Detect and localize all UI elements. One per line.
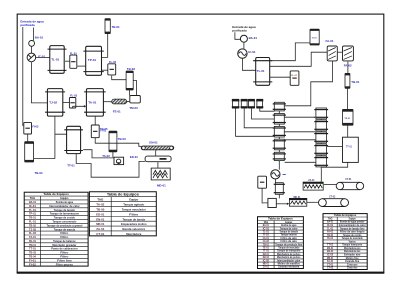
svg-text:Filtro fino: Filtro fino [57,258,72,262]
svg-text:TL-01: TL-01 [51,58,59,62]
svg-text:TA-01: TA-01 [29,235,36,239]
tank TE-51 [343,109,354,125]
svg-text:Cinta uno: Cinta uno [347,263,358,266]
bin B2 [241,99,248,108]
svg-text:CT-02: CT-02 [329,196,336,198]
svg-text:TB-01: TB-01 [351,80,359,84]
svg-text:FE-01: FE-01 [113,110,121,114]
pump BA-51 [240,35,247,42]
bin B1 [232,99,240,108]
wire [278,194,280,198]
svg-text:CT-01: CT-01 [327,264,334,266]
svg-text:TI-01: TI-01 [312,38,318,40]
svg-text:MA-01: MA-01 [263,253,270,256]
svg-text:CT-02: CT-02 [327,268,334,270]
svg-text:IC-01: IC-01 [29,204,37,208]
svg-text:Filtro: Filtro [60,235,69,239]
wire [321,162,347,167]
svg-text:Zaranda fina: Zaranda fina [345,260,360,263]
svg-text:Filtro: Filtro [60,251,69,255]
svg-text:TB-05: TB-05 [96,208,104,212]
wire [133,80,136,95]
dryer ED-01 [145,156,171,162]
table Tabla de Equipos 3 [258,217,304,269]
svg-text:Empacadora molino: Empacadora molino [121,222,147,226]
svg-text:MD-01: MD-01 [294,197,302,199]
wire [285,116,316,118]
conveyor CT-51 [336,182,364,189]
wire [64,60,70,62]
wire [242,58,255,70]
filter FI-02 [24,122,32,134]
wire [31,62,47,103]
wire [63,102,70,104]
mixer TM-03 [130,96,141,103]
svg-text:TB-05: TB-05 [100,127,108,131]
wire [262,188,268,203]
wire [236,108,275,136]
svg-text:TB-02: TB-02 [29,223,36,227]
svg-text:Mezcladora de polvos: Mezcladora de polvos [277,256,301,259]
svg-text:BA-01: BA-01 [35,35,44,39]
mixer M22 [314,120,328,131]
wire [95,138,141,147]
table Tabla de Equipos 4 [323,214,367,270]
svg-text:Tanque de lavado: Tanque de lavado [279,231,298,233]
tank TA-01 [84,89,106,117]
pump unit TA-02 [114,157,124,164]
wire [260,108,275,111]
heat exchanger IC-01 [27,53,36,62]
extruder FE-01 [112,99,127,104]
wire [157,162,159,168]
svg-text:TM-01: TM-01 [29,243,36,247]
wire [274,179,276,183]
svg-text:IC-02: IC-02 [263,260,270,262]
wire [73,106,85,108]
wire [346,88,348,109]
tank TL-51 [253,58,272,86]
svg-text:EN-01: EN-01 [149,140,158,144]
svg-text:MA-02: MA-02 [263,256,270,259]
wire [276,203,287,205]
filter FI-01 [91,125,99,138]
svg-text:Tanque de balance: Tanque de balance [53,239,76,243]
drum D2 [274,183,285,195]
svg-text:MD-01: MD-01 [96,222,104,226]
svg-text:IC-01: IC-01 [263,228,270,230]
svg-text:TJ-02: TJ-02 [49,101,57,105]
column TB-01 [105,19,110,34]
svg-text:MA-02: MA-02 [327,250,334,253]
wire [77,65,86,67]
svg-text:TT-01: TT-01 [263,251,270,253]
svg-text:Tanque de cocido: Tanque de cocido [54,216,76,220]
mill MD-01 [151,168,170,180]
svg-text:TJ-02: TJ-02 [29,227,36,231]
conveyor CT-52 [319,199,349,207]
tank SV-51 [258,176,267,188]
wire [76,154,145,178]
svg-text:TAG: TAG [30,196,35,200]
svg-text:Filtro: Filtro [129,212,138,216]
wire [22,27,24,126]
screen ZA-51 [303,182,323,190]
svg-text:Intercambiador de calor: Intercambiador de calor [49,204,80,208]
wire [129,90,131,95]
svg-text:BA-01: BA-01 [263,224,270,227]
wire [31,46,33,53]
svg-text:Mezcladora de polvos: Mezcladora de polvos [277,253,301,256]
wire [327,145,343,147]
svg-text:Equipo: Equipo [285,222,293,224]
wire [112,75,126,80]
column TB-03 [109,131,117,152]
mixer M21 [314,108,328,119]
svg-text:ZA-01: ZA-01 [263,266,270,269]
svg-text:TL-01: TL-01 [263,231,270,233]
svg-text:Filtro de aire limpio: Filtro de aire limpio [340,231,365,234]
column TI-51 [310,29,319,45]
svg-text:Tanque de mezcla: Tanque de mezcla [54,227,76,231]
svg-text:Tanque de transporte: Tanque de transporte [277,250,301,253]
svg-text:TT-01: TT-01 [346,146,353,148]
wire [27,134,29,142]
wire [285,161,316,163]
svg-text:CT-01: CT-01 [96,232,104,236]
svg-text:TE-01: TE-01 [263,247,270,249]
svg-text:Tabla de Equipos: Tabla de Equipos [107,192,140,197]
svg-text:ED-01: ED-01 [130,155,138,159]
svg-text:Tanque de fermentacion: Tanque de fermentacion [50,212,80,216]
svg-text:Punto de calibracion: Punto de calibracion [51,247,78,251]
svg-text:Tabla de Equipos: Tabla de Equipos [43,192,69,196]
mixer M24 [314,144,328,155]
svg-text:FL-03: FL-03 [70,94,77,98]
bin B3 [248,99,255,108]
svg-text:Tanque de cocido: Tanque de cocido [343,235,362,237]
svg-text:FA-01: FA-01 [326,39,334,43]
svg-text:Mezclador granular: Mezclador granular [52,243,76,247]
svg-text:TB-04: TB-04 [35,171,43,175]
svg-text:FI-01: FI-01 [29,258,37,262]
column TB-51 [345,73,350,88]
wire [285,61,333,106]
svg-text:FA-01: FA-01 [263,237,270,240]
svg-text:FI-02: FI-02 [29,262,37,266]
svg-text:TA-02: TA-02 [96,203,104,207]
svg-text:ZA-01: ZA-01 [96,227,104,231]
svg-text:Tanque de calor: Tanque de calor [280,227,298,230]
svg-text:FL-03: FL-03 [29,231,36,235]
filter FA-02 [343,46,354,61]
packer EN-01 [141,146,174,150]
column TB-02 [126,71,133,90]
wire [347,125,349,137]
svg-text:IC-01: IC-01 [327,225,334,227]
svg-text:FI-02: FI-02 [32,125,39,129]
svg-text:MD-01: MD-01 [327,258,334,260]
tank TP-01 [83,46,103,75]
svg-text:Equipo: Equipo [129,198,138,202]
wire [33,28,35,41]
svg-text:TB-04: TB-04 [29,254,36,258]
svg-text:Equipo: Equipo [60,196,68,200]
wire [347,61,349,74]
svg-text:TB-01: TB-01 [29,216,36,220]
svg-text:Mezcladora dos: Mezcladora dos [344,250,361,253]
svg-text:Filtro: Filtro [60,254,69,258]
wire [270,43,310,61]
svg-text:TE-01: TE-01 [344,118,351,120]
wire [320,119,322,169]
svg-text:Tanque de producto a granel: Tanque de producto a granel [47,223,83,227]
svg-text:Filtro: Filtro [60,231,69,235]
svg-text:ED-01: ED-01 [96,212,104,216]
svg-text:Intercambiador calor: Intercambiador calor [277,259,301,262]
mixer M15 [273,152,286,160]
svg-text:Molino fino: Molino fino [346,258,360,260]
svg-text:TAG: TAG [263,221,268,224]
svg-text:Bomba de agua potable: Bomba de agua potable [340,221,365,224]
svg-text:Tanque de mezclado: Tanque de mezclado [278,247,300,249]
svg-text:TB-01: TB-01 [327,235,334,237]
wire [36,56,50,58]
wire [278,111,280,152]
svg-text:TP-01: TP-01 [88,58,97,62]
pump BA-01 [29,41,35,47]
svg-text:TAG: TAG [328,217,333,220]
svg-text:Tanque mezclador: Tanque mezclador [122,208,147,212]
mixer M12 [273,114,286,125]
tank TT-51 [343,137,359,162]
svg-text:TB-01: TB-01 [112,25,120,29]
svg-text:TM-03: TM-03 [129,106,138,110]
wire [244,108,274,128]
mixer M11 [273,102,286,111]
svg-text:FL-01: FL-01 [29,219,36,223]
svg-text:Equipo: Equipo [349,218,357,220]
svg-text:IC-01: IC-01 [38,55,45,59]
svg-text:Molino de martillos: Molino de martillos [278,262,301,265]
box SE-51 [268,198,276,207]
wire [127,101,130,103]
wire [102,34,108,58]
svg-text:MD-01: MD-01 [263,263,270,265]
screen MD-52 [289,198,306,206]
mixer M23 [314,132,328,143]
svg-text:TB-01: TB-01 [263,244,270,246]
label IC-52 [283,173,286,175]
svg-text:Bomba de agua: Bomba de agua [281,225,297,227]
svg-text:Tanque de producto fino: Tanque de producto fino [275,243,303,246]
wire [112,152,114,157]
wire [243,42,245,49]
wire [252,108,275,119]
svg-text:purificada: purificada [232,29,247,33]
svg-text:CT-01: CT-01 [345,179,352,181]
heat exchanger IC-51 [238,49,247,58]
svg-text:Enfriador aire: Enfriador aire [344,254,361,257]
wire [285,139,316,141]
svg-text:TP-01: TP-01 [29,212,36,216]
svg-text:TL-01: TL-01 [327,228,334,230]
wire [285,131,316,133]
svg-text:purificada: purificada [20,23,35,27]
heat exchanger IC-52 [271,170,280,179]
svg-text:Mezcladora uno: Mezcladora uno [344,247,361,250]
wire [307,201,318,203]
svg-text:TAG: TAG [97,198,104,202]
svg-text:Tabla de Equipos: Tabla de Equipos [268,217,293,221]
mixer M25 [314,156,328,167]
svg-text:IC-01: IC-01 [248,50,255,54]
svg-text:Tanque transporte: Tanque transporte [342,244,363,247]
tank TL-01 [48,46,67,74]
svg-text:FA-01: FA-01 [327,231,334,234]
svg-text:TB-02: TB-02 [127,67,135,71]
wire [155,150,157,156]
svg-text:IC-02: IC-02 [327,255,334,257]
svg-text:Intercambiador de calor: Intercambiador de calor [339,224,366,227]
svg-text:TT-01: TT-01 [67,163,75,167]
wire [278,161,280,170]
svg-text:BA-01: BA-01 [29,200,36,204]
svg-text:ZA-01: ZA-01 [308,179,315,182]
svg-text:Tabla de Equipos: Tabla de Equipos [334,213,357,217]
wire [270,52,328,66]
svg-text:Mezcladora: Mezcladora [126,232,141,236]
svg-text:Tanque de lavado: Tanque de lavado [54,208,76,212]
svg-text:Varios: Varios [349,240,357,243]
wire [235,32,240,39]
svg-text:FE-01: FE-01 [29,239,36,243]
tank TT-01 [64,126,83,153]
svg-text:Tanque de lavado fino: Tanque de lavado fino [340,228,365,230]
svg-text:Cinta dos: Cinta dos [347,267,358,270]
wire [270,76,291,78]
mixer M14 [273,139,286,150]
mixer M13 [273,126,286,137]
svg-text:Tanque agitado: Tanque agitado [123,203,144,207]
wire [34,116,67,159]
svg-text:TI-01: TI-01 [263,235,270,237]
table Tabla de Equipos 2 [89,192,156,236]
filter FL-01 [70,55,77,68]
wire [83,150,114,158]
svg-text:EN-01: EN-01 [96,217,104,221]
svg-text:TA-02: TA-02 [102,154,110,158]
svg-text:Bomba de agua: Bomba de agua [56,200,74,204]
svg-text:TT-01: TT-01 [29,247,36,251]
svg-text:Filtro de aire: Filtro de aire [281,240,298,243]
wire [337,51,342,53]
svg-text:MA-01: MA-01 [327,247,334,250]
filter FL-02 [108,64,116,75]
svg-text:TL-01: TL-01 [257,69,265,73]
svg-text:Filtro de aire: Filtro de aire [281,237,298,240]
svg-text:ZA-01: ZA-01 [327,260,334,263]
svg-text:TE-01: TE-01 [327,238,334,240]
wire [94,116,96,125]
tank TJ-02 [45,89,65,117]
svg-text:FL-01: FL-01 [70,51,77,55]
svg-text:TB-03: TB-03 [118,137,126,141]
svg-text:TA-01: TA-01 [88,101,96,105]
svg-text:TB-03: TB-03 [29,251,36,255]
svg-text:Tanque concentrado: Tanque concentrado [52,219,76,223]
svg-text:Tanque interno: Tanque interno [281,234,298,237]
svg-text:FL-02: FL-02 [109,60,116,64]
svg-text:FL-01: FL-01 [291,75,298,77]
filter FA-01 [327,46,337,61]
filter FL-03 [69,98,75,109]
bin B4 [256,99,263,108]
svg-text:TT-01: TT-01 [327,245,334,247]
svg-text:BA-01: BA-01 [327,221,334,224]
wire [103,101,111,103]
column TB-04 [25,142,34,162]
svg-text:Tanque de mezclado: Tanque de mezclado [342,238,364,240]
svg-text:TL-01: TL-01 [29,208,36,212]
wire [320,169,322,182]
svg-text:BA-01: BA-01 [249,36,258,40]
svg-text:Zaranda vibratoria: Zaranda vibratoria [278,266,300,269]
svg-text:Tanque de banda: Tanque de banda [122,217,145,221]
svg-text:FA-02: FA-02 [263,240,270,243]
svg-text:Filtro grueso: Filtro grueso [56,262,74,266]
table Tabla de Equipos 1 [24,192,88,266]
filter FL-51 [290,71,299,85]
svg-text:MD-01: MD-01 [157,183,166,187]
wire [102,69,108,71]
svg-text:Banda selectora: Banda selectora [122,227,145,231]
wire [323,184,336,186]
